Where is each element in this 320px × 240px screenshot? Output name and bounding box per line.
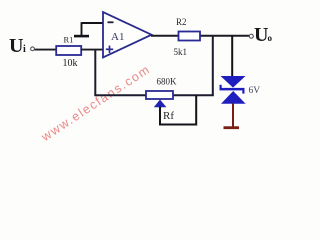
zener D1 upper [221,76,246,88]
op-amp plus sign [106,46,113,53]
svg-text:i: i [23,44,26,55]
svg-text:6V: 6V [249,86,261,96]
svg-text:R2: R2 [176,17,187,27]
wire feedback horizontal to RF [94,94,146,96]
wire feedback vertical [94,49,96,95]
resistor R1 [56,46,81,55]
wire wiper up to node [195,95,197,126]
zener cathode bar [220,85,245,94]
wire input to R1 [35,49,56,51]
wiper stem [159,107,161,125]
wire R1 to op-amp [81,49,103,51]
wire node to RF right [173,94,214,96]
wire zener feed [231,35,233,77]
node Ui input label [9,35,26,57]
potentiometer wiper arrow [154,100,167,108]
svg-text:A1: A1 [111,31,124,43]
wire wiper bottom [159,124,197,126]
ground [224,126,240,129]
svg-text:o: o [268,33,273,43]
wire inverting input [82,22,104,24]
wire op-amp output [151,35,249,37]
op-amp minus sign [108,21,114,23]
svg-text:U: U [9,35,23,57]
svg-text:U: U [254,24,268,46]
potentiometer RF body [146,91,173,99]
svg-text:5k1: 5k1 [174,47,188,57]
ground bar [74,35,89,38]
resistor R2 [179,32,201,41]
watermark www.elecfans.com [38,62,153,145]
svg-text:Rf: Rf [163,110,174,122]
svg-text:680K: 680K [157,77,178,87]
input terminal [31,47,35,51]
op-amp A1 [103,12,152,58]
output terminal [249,34,253,38]
svg-text:R1: R1 [64,35,74,45]
zener D2 lower [221,91,246,104]
wire zener to ground [232,104,234,128]
ground stem at inverting input [81,22,83,36]
svg-text:10k: 10k [63,58,78,69]
wire output node down [212,35,214,95]
node Uo output label [254,24,273,46]
